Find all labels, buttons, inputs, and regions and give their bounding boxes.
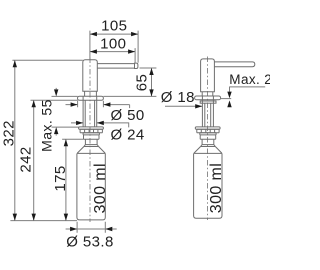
300 ml label right bottle [208, 163, 225, 213]
dim Ø 24 [71, 121, 145, 144]
dim 175 [52, 139, 83, 220]
pump head body left [83, 60, 98, 91]
lock nut ridges left [80, 129, 102, 133]
bottle body right [194, 153, 222, 218]
spout tube left [97, 63, 138, 68]
bottle shoulder left [77, 147, 105, 154]
svg-text:Max. 2: Max. 2 [229, 72, 270, 87]
dim Ø 18 [161, 89, 202, 109]
bottle cap right [200, 133, 216, 139]
dim 100 [90, 36, 135, 63]
pump head body right [201, 59, 215, 92]
svg-text:300 ml: 300 ml [208, 163, 225, 213]
pump head skirt left [85, 91, 97, 96]
bottle body left [77, 153, 105, 220]
bottle neck left [84, 139, 99, 146]
bottle shoulder right [194, 147, 222, 154]
dim Max. 2 [221, 72, 272, 107]
spout tube right [214, 62, 254, 67]
svg-text:65: 65 [134, 74, 151, 92]
svg-text:175: 175 [52, 165, 69, 191]
flange right [195, 96, 221, 100]
svg-text:Ø 24: Ø 24 [110, 127, 144, 144]
lock nut plate left [79, 127, 104, 129]
lock nut ridges right [197, 129, 219, 133]
dim Ø 53.8 [66, 222, 117, 251]
svg-text:Ø 50: Ø 50 [110, 107, 144, 124]
dim 322 [1, 60, 83, 220]
svg-text:Ø 18: Ø 18 [161, 89, 195, 106]
300 ml label left bottle [92, 163, 109, 213]
dim 242 [18, 100, 78, 220]
flange (escutcheon) left [78, 96, 104, 100]
dim 105 [90, 18, 138, 63]
bottle neck right [201, 139, 216, 146]
threaded shaft right [202, 96, 213, 127]
pump head skirt right [202, 92, 213, 96]
dim 65 [103, 68, 156, 96]
svg-text:322: 322 [1, 120, 18, 146]
svg-text:300 ml: 300 ml [92, 163, 109, 213]
dim Max. 55 [38, 88, 78, 152]
svg-text:100: 100 [100, 36, 126, 53]
svg-text:242: 242 [18, 146, 35, 172]
centerline left dispenser [89, 58, 91, 223]
collar under flange right [200, 101, 216, 103]
threaded shaft left [83, 96, 97, 127]
centerline right dispenser [207, 57, 209, 221]
svg-text:Ø 53.8: Ø 53.8 [66, 233, 113, 250]
dim Ø 50 [66, 101, 145, 124]
svg-text:105: 105 [101, 18, 127, 35]
lock nut plate right [195, 127, 220, 129]
svg-text:Max. 55: Max. 55 [38, 99, 54, 152]
bottle cap left [83, 133, 99, 139]
